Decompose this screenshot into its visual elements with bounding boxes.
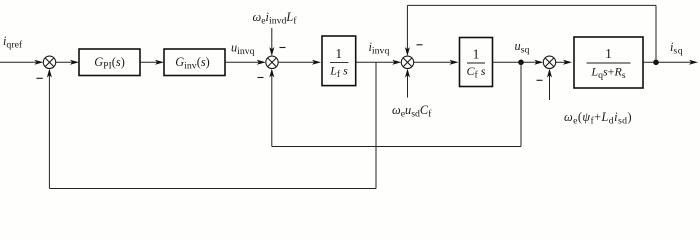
block G_inv(s) — [164, 49, 225, 76]
wire Ginv to summing junction S2 — [225, 61, 259, 63]
block 1/(Lf s) — [322, 36, 356, 86]
arrowhead output — [689, 60, 698, 65]
wire feedback i_invq to S1: vertical down from tap — [375, 62, 377, 188]
wire feedback i_sq to S3: vertical down into S3 top — [406, 5, 408, 49]
node dot u_sq — [518, 60, 524, 66]
arrowhead into 1/Lfs — [312, 60, 321, 65]
fraction bar — [587, 62, 631, 64]
arrowhead up into S4 bottom — [547, 69, 552, 78]
svg-text:Lqs+Rs: Lqs+Rs — [590, 65, 625, 81]
minus sign at S2 top input — [280, 47, 286, 49]
minus sign at S1 bottom input — [36, 77, 42, 79]
wire feedback u_sq to S2: horizontal — [272, 146, 521, 148]
arrowhead into S1 — [34, 60, 43, 65]
wire omega_e(psi_f + L_d i_sd) into S4 bottom — [549, 75, 551, 100]
arrowhead down into S2 top — [269, 47, 274, 56]
wire feedback i_invq to S1: bottom horizontal — [49, 188, 376, 190]
svg-text:1: 1 — [473, 47, 480, 62]
wire S4 to block 1/(Lqs+Rs) — [556, 61, 565, 63]
wire S3 to block 1/Cfs — [414, 61, 452, 63]
arrowhead up into S3 bottom — [405, 69, 410, 78]
wire feedback i_sq to S3: vertical up from output node — [655, 5, 657, 62]
arrowhead down into S3 top — [405, 47, 410, 56]
minus sign at S2 bottom input — [258, 77, 264, 79]
block 1/(Lq s + Rs) — [574, 37, 643, 88]
fraction bar — [330, 61, 349, 63]
wire feedback i_invq to S1: vertical up into S1 bottom — [48, 75, 50, 189]
wire 1/Cfs to summing junction S4 with u_sq node — [493, 61, 537, 63]
wire omega_e u_sd C_f into S3 bottom — [407, 75, 409, 98]
fraction bar — [467, 62, 485, 64]
arrowhead into GPI — [70, 60, 79, 65]
arrowhead into S3 — [392, 60, 401, 65]
arrowhead into 1/Cfs — [450, 60, 459, 65]
summing junction S4 — [543, 56, 555, 68]
wire feedback u_sq to S2: vertical up into S2 bottom — [271, 75, 273, 147]
summing junction S2 — [266, 56, 278, 68]
wire S1 to block GPI — [56, 61, 72, 63]
wire omega_e i_invd L_f into S2 top — [271, 28, 273, 50]
arrowhead into S4 — [534, 60, 543, 65]
svg-text:1: 1 — [605, 46, 612, 61]
arrowhead into S2 — [257, 60, 266, 65]
minus sign at S3 top input — [417, 44, 423, 46]
arrowhead into Ginv — [155, 60, 164, 65]
svg-text:1: 1 — [335, 46, 342, 61]
wire output i_sq with node — [643, 61, 691, 63]
arrowhead up into S1 bottom — [47, 69, 52, 78]
wire S2 to block 1/Lfs — [278, 61, 314, 63]
summing junction S1 — [43, 56, 55, 68]
node dot output — [653, 60, 659, 66]
summing junction S3 — [401, 56, 413, 68]
wire GPI to Ginv — [140, 61, 157, 63]
wire input to summing junction S1 — [0, 61, 36, 63]
block 1/(Cf s) — [460, 38, 493, 87]
arrowhead into 1/(Lqs+Rs) — [563, 60, 572, 65]
arrowhead up into S2 bottom — [269, 69, 274, 78]
wire 1/Lfs to summing junction S3 — [356, 61, 395, 63]
block G_PI(s) — [79, 49, 140, 76]
wire feedback i_sq to S3: top horizontal — [407, 4, 656, 6]
wire feedback u_sq to S2: vertical down from u_sq node — [520, 62, 522, 146]
minus sign at S4 bottom input — [537, 79, 543, 81]
